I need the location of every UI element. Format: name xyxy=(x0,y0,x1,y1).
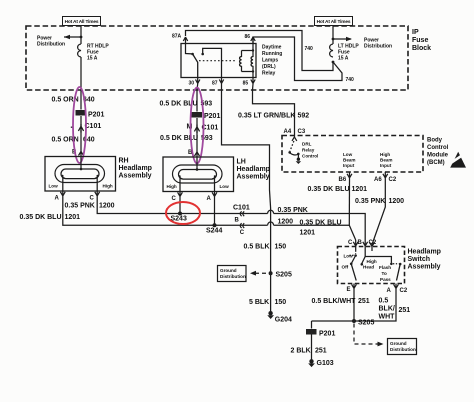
pin 87 arrow xyxy=(212,78,224,87)
pin A exit LH xyxy=(207,192,217,203)
switch: head/high contact from B xyxy=(361,257,393,266)
svg-text:Low: Low xyxy=(343,152,353,157)
svg-text:Distribution: Distribution xyxy=(37,42,65,48)
RH high filament leg xyxy=(95,175,98,191)
label: RH Headlamp Assembly xyxy=(119,158,152,180)
wire: 0.35 PNK 1200 from A6 to switch C2 xyxy=(372,179,385,245)
wire: dashed S205 to Ground Distribution (right) xyxy=(354,324,384,347)
RH headlamp assembly box xyxy=(45,157,116,192)
wire: arrow to Power Distribution (right) xyxy=(333,37,352,41)
svg-text:1200: 1200 xyxy=(278,219,294,226)
svg-text:1200: 1200 xyxy=(99,203,115,210)
svg-text:B6: B6 xyxy=(339,177,347,183)
svg-text:15 A: 15 A xyxy=(87,56,98,62)
relay coil xyxy=(240,44,253,78)
label: RT HDLP Fuse 15 A xyxy=(87,44,109,62)
svg-text:150: 150 xyxy=(275,299,287,306)
svg-text:Running: Running xyxy=(262,51,282,57)
RH low filament leg xyxy=(62,175,65,191)
svg-text:BLK/: BLK/ xyxy=(379,306,395,313)
ground G204 xyxy=(267,311,292,324)
svg-text:P201: P201 xyxy=(88,112,104,119)
svg-text:Headlamp: Headlamp xyxy=(408,249,441,256)
svg-text:Hot At All Times: Hot At All Times xyxy=(317,19,351,25)
svg-text:0.5 ORN: 0.5 ORN xyxy=(52,137,79,144)
svg-text:Off: Off xyxy=(342,265,349,270)
svg-text:Assembly: Assembly xyxy=(119,173,152,180)
wire: relay pin 87 to ground splice S205 xyxy=(222,84,271,313)
svg-text:C2: C2 xyxy=(389,177,397,183)
svg-text:High: High xyxy=(103,184,113,189)
svg-text:Input: Input xyxy=(380,163,392,168)
svg-text:251: 251 xyxy=(358,298,370,305)
svg-text:30: 30 xyxy=(189,81,195,87)
svg-text:P201: P201 xyxy=(204,113,220,120)
wire: feed from Hot box1 to RT HDLP fuse xyxy=(80,26,82,45)
label: Power Distribution (left) xyxy=(37,36,65,48)
label: 5 BLK 150 xyxy=(249,299,286,306)
svg-text:IP: IP xyxy=(412,29,419,36)
relay contact 87A (NC) xyxy=(186,44,193,54)
pin B entry LH headlamp xyxy=(188,150,200,157)
svg-text:0.35 DK BLU: 0.35 DK BLU xyxy=(20,214,62,221)
svg-text:Assembly: Assembly xyxy=(408,264,441,271)
svg-text:740: 740 xyxy=(305,46,314,52)
svg-text:Flash: Flash xyxy=(379,265,391,270)
pin B entry switch xyxy=(358,240,368,257)
annotation: red ellipse around S243 xyxy=(166,202,200,224)
connector C101 on buses xyxy=(233,204,250,236)
svg-text:High: High xyxy=(167,184,177,189)
svg-text:1201: 1201 xyxy=(352,186,368,193)
switch contacts: Low / Off and arm to E xyxy=(350,251,357,281)
headlamp switch assembly box xyxy=(338,247,405,284)
node: splice S205 (right) xyxy=(352,319,374,327)
svg-text:A: A xyxy=(387,288,392,294)
label: High Beam Input xyxy=(380,152,393,168)
label: 740 (inner) xyxy=(305,46,314,52)
svg-text:0.35 PNK: 0.35 PNK xyxy=(65,203,95,210)
svg-text:(DRL): (DRL) xyxy=(262,64,276,70)
pin A4/C3 entry to BCM xyxy=(284,129,306,141)
svg-text:Distribution: Distribution xyxy=(220,274,246,279)
label: 0.5 DK BLU 593 (upper) xyxy=(160,101,213,108)
svg-text:0.5 BLK: 0.5 BLK xyxy=(244,244,270,251)
IP Fuse Block box xyxy=(26,26,408,90)
Hot At All Times box 1 xyxy=(63,17,101,26)
label: 0.5 DK BLU 593 (lower) xyxy=(160,135,213,142)
svg-text:(BCM): (BCM) xyxy=(427,160,445,166)
pin A6/C2 exit from BCM xyxy=(374,172,397,183)
svg-text:Head: Head xyxy=(363,265,374,270)
LH low filament leg xyxy=(212,176,215,192)
svg-text:Ground: Ground xyxy=(220,268,237,273)
label: 0.5 BLK 150 xyxy=(244,244,287,251)
svg-text:To: To xyxy=(382,271,387,276)
wire: E to S205, 0.5 BLK/WHT 251 xyxy=(353,292,355,321)
fuse LT HDLP 15A xyxy=(330,44,333,57)
wire: dashed arrow S205 to Ground Distribution (left) xyxy=(250,271,266,276)
svg-text:C2: C2 xyxy=(400,288,408,294)
wire 740: LT fuse to relay pin 86 xyxy=(253,37,342,81)
wire: A/C2 down and left to S205 xyxy=(312,292,397,321)
label: 0.5 ORN 640 (lower) xyxy=(52,137,95,144)
svg-text:Daytime: Daytime xyxy=(262,45,282,51)
relay contact 87 (NO) branch xyxy=(203,48,222,77)
relay switch arm from pin 30 xyxy=(193,54,198,78)
svg-text:Low: Low xyxy=(344,254,354,259)
svg-text:Body: Body xyxy=(427,138,443,144)
ground G103 xyxy=(308,359,334,367)
LH bulb envelope xyxy=(173,165,223,183)
svg-text:251: 251 xyxy=(315,348,327,355)
LH high filament leg xyxy=(179,176,182,192)
label: High / Head xyxy=(363,259,377,270)
node: junction at RT fuse tap xyxy=(80,36,83,39)
wire: joined low-beam to switch C xyxy=(349,225,355,240)
label: Low Beam Input xyxy=(343,152,356,168)
node: LT fuse bottom junction xyxy=(332,61,335,64)
svg-text:C: C xyxy=(172,196,177,202)
connector P201 on ground wire xyxy=(306,329,335,338)
svg-text:Pass: Pass xyxy=(380,277,391,282)
node: splice S244 xyxy=(206,200,222,235)
label: Body Control Module (BCM) xyxy=(427,138,449,167)
box: Ground Distribution (right) xyxy=(388,339,417,355)
wire: high-beam bus (PNK 1200): RH C to switch B xyxy=(97,199,365,240)
svg-text:150: 150 xyxy=(275,244,287,251)
fuse RT HDLP 15A xyxy=(78,44,81,57)
svg-text:Block: Block xyxy=(412,45,431,52)
svg-text:C: C xyxy=(90,196,95,202)
connector P201 on RH feed xyxy=(76,110,105,119)
svg-text:5 BLK: 5 BLK xyxy=(249,299,269,306)
svg-text:M: M xyxy=(187,124,193,131)
svg-text:0.35 PNK: 0.35 PNK xyxy=(355,198,385,205)
svg-text:S205: S205 xyxy=(358,320,374,327)
svg-text:C3: C3 xyxy=(298,129,306,135)
node: splice S205 (left) xyxy=(269,271,273,275)
svg-text:B: B xyxy=(235,217,240,223)
connector C101 on RH feed xyxy=(71,123,102,133)
svg-text:S244: S244 xyxy=(206,228,222,235)
label: 2 BLK 251 xyxy=(291,348,327,355)
svg-text:1201: 1201 xyxy=(65,214,81,221)
pin 87A arrow xyxy=(172,34,188,44)
wire: low-beam bus (DK BLU 1201): RH A to junction xyxy=(63,199,350,225)
svg-text:85: 85 xyxy=(243,81,249,87)
svg-text:0.5 BLK/WHT: 0.5 BLK/WHT xyxy=(312,298,357,305)
svg-text:Low: Low xyxy=(49,184,59,189)
svg-text:B: B xyxy=(358,240,363,246)
svg-text:Beam: Beam xyxy=(380,158,393,163)
dotted actuating link xyxy=(199,60,236,62)
annotation: purple ellipse LH xyxy=(191,88,204,164)
svg-text:LH: LH xyxy=(237,159,246,166)
pin A/C2 exit switch xyxy=(387,284,408,295)
svg-text:0.35 DK BLU: 0.35 DK BLU xyxy=(300,220,342,227)
svg-text:C: C xyxy=(348,240,353,246)
svg-text:Relay: Relay xyxy=(302,148,315,153)
svg-text:E: E xyxy=(347,287,351,293)
svg-text:A6: A6 xyxy=(374,177,382,183)
label: High / Low (LH) xyxy=(167,184,230,189)
svg-text:G204: G204 xyxy=(275,317,292,324)
svg-text:Distribution: Distribution xyxy=(390,347,416,352)
svg-text:Headlamp: Headlamp xyxy=(119,165,152,172)
svg-text:C: C xyxy=(240,230,245,236)
svg-text:Relay: Relay xyxy=(262,71,276,77)
svg-text:Beam: Beam xyxy=(343,158,356,163)
connector P201 on LH feed xyxy=(192,112,221,120)
label: LT HDLP Fuse 15 A xyxy=(338,44,359,62)
svg-text:Assembly: Assembly xyxy=(237,174,270,181)
pin C2 entry switch xyxy=(369,240,377,251)
svg-text:Module: Module xyxy=(427,153,449,159)
label: 0.35 LT GRN/BLK 592 xyxy=(238,113,309,120)
svg-text:740: 740 xyxy=(346,77,355,83)
svg-text:A: A xyxy=(207,196,212,202)
svg-text:C101: C101 xyxy=(233,204,250,211)
svg-text:1201: 1201 xyxy=(300,230,316,237)
label: LH Headlamp Assembly xyxy=(237,159,270,181)
wire: LH feed into bulb xyxy=(196,157,199,171)
pin B6 exit from BCM xyxy=(339,172,352,183)
label: 0.35 DK BLU / 1201 right of hop bus2 xyxy=(300,220,342,237)
label: 0.5 ORN 640 (upper) xyxy=(52,97,95,104)
label: 740 (outer) xyxy=(346,77,355,83)
label: Low / Off xyxy=(342,254,354,270)
svg-text:15 A: 15 A xyxy=(338,56,349,62)
svg-text:WHT: WHT xyxy=(379,314,396,321)
svg-text:Ground: Ground xyxy=(390,341,407,346)
svg-text:0.35 PNK: 0.35 PNK xyxy=(278,207,308,214)
svg-text:87A: 87A xyxy=(172,34,182,40)
icon: BCM hazard triangle xyxy=(449,152,467,168)
LH headlamp assembly box xyxy=(163,157,234,192)
svg-text:Low: Low xyxy=(220,184,230,189)
svg-text:S205: S205 xyxy=(276,272,292,279)
svg-text:0.5 DK BLU: 0.5 DK BLU xyxy=(160,135,198,142)
svg-text:Distribution: Distribution xyxy=(364,44,392,50)
svg-text:251: 251 xyxy=(399,307,411,314)
label: Daytime Running Lamps (DRL) Relay xyxy=(262,45,282,77)
wire: relay pin 85 to BCM A4/C3, 0.35 LT GRN/BLK 592 xyxy=(253,84,295,129)
pin E exit switch xyxy=(347,284,357,293)
svg-text:87: 87 xyxy=(212,81,218,87)
svg-text:C2: C2 xyxy=(369,240,377,246)
svg-text:Hot At All Times: Hot At All Times xyxy=(65,19,99,25)
node: junction at LT fuse tap xyxy=(332,38,335,41)
svg-text:A: A xyxy=(55,196,60,202)
svg-text:DRL: DRL xyxy=(302,142,312,147)
label: 0.35 PNK / 1200 right of hop bus1 xyxy=(278,207,308,226)
svg-text:RH: RH xyxy=(119,158,129,165)
wire: RH feed into bulb xyxy=(80,157,83,171)
svg-text:0.35 DK BLU: 0.35 DK BLU xyxy=(308,186,350,193)
svg-text:Fuse: Fuse xyxy=(412,37,428,44)
label: Headlamp Switch Assembly xyxy=(408,249,441,271)
pin B entry RH headlamp xyxy=(72,150,84,157)
pin 85 arrow xyxy=(243,78,256,87)
pin 86 arrow xyxy=(245,34,256,44)
pin A exit RH xyxy=(55,191,66,202)
label: 0.35 DK BLU 1201 on RH pin A wire xyxy=(20,214,81,221)
pin C exit RH xyxy=(90,191,100,202)
relay K1 DRL box xyxy=(181,44,256,78)
svg-text:Control: Control xyxy=(427,145,449,151)
svg-text:0.5: 0.5 xyxy=(379,298,389,305)
symbol: DRL relay control driver inside BCM xyxy=(288,141,301,164)
label: Flash To Pass xyxy=(379,265,391,282)
svg-text:C101: C101 xyxy=(85,123,102,130)
box: Ground Distribution (left) xyxy=(218,266,247,282)
label: Low / High (RH) xyxy=(49,184,113,189)
pin 30 arrow xyxy=(189,78,200,87)
svg-text:High: High xyxy=(380,152,390,157)
svg-text:Lamps: Lamps xyxy=(262,58,278,64)
svg-text:A4: A4 xyxy=(284,129,292,135)
label: 0.35 PNK 1200 on RH pin C wire xyxy=(65,203,115,210)
wire: 0.35 DK BLU 1201 from B6 xyxy=(348,179,350,226)
pin C exit LH xyxy=(172,192,183,203)
label: Power Distribution (right) xyxy=(364,38,392,50)
pin C entry switch xyxy=(348,240,358,251)
wire: feed from Hot box2 to LT HDLP fuse xyxy=(332,26,334,45)
svg-text:0.35 LT GRN/BLK: 0.35 LT GRN/BLK xyxy=(238,113,295,120)
svg-text:2 BLK: 2 BLK xyxy=(291,348,311,355)
connector C101 on LH feed (pin M) xyxy=(187,124,219,133)
module BCM box xyxy=(282,136,423,173)
node: splice S243 xyxy=(171,200,187,223)
svg-text:High: High xyxy=(367,259,377,264)
switch: flash-to-pass contact and arm to A xyxy=(393,263,402,281)
svg-text:Control: Control xyxy=(302,154,318,159)
wire: RH headlamp feed 0.5 ORN 640 xyxy=(80,90,82,152)
wire: S205 left branch down to G103 xyxy=(311,321,313,361)
svg-text:Switch: Switch xyxy=(408,256,431,263)
IP Fuse Block label xyxy=(412,29,431,52)
svg-text:Input: Input xyxy=(343,163,355,168)
label: DRL Relay Control xyxy=(302,142,318,159)
wire 740: LT fuse to relay pin 87A xyxy=(186,31,334,71)
svg-text:Headlamp: Headlamp xyxy=(237,166,270,173)
annotation: purple ellipse RH xyxy=(73,87,86,163)
svg-text:1200: 1200 xyxy=(389,198,405,205)
svg-text:592: 592 xyxy=(298,113,310,120)
Hot At All Times box 2 xyxy=(315,17,353,26)
wire: arrow to Power Distribution (left) xyxy=(64,35,81,39)
svg-text:86: 86 xyxy=(245,34,251,40)
svg-text:P201: P201 xyxy=(319,331,335,338)
wire: RT fuse output down to box edge xyxy=(80,57,82,90)
RH bulb envelope xyxy=(55,165,105,183)
svg-text:G103: G103 xyxy=(317,360,334,367)
wire: LH headlamp feed 0.5 DK BLU 593 from relay pin 30 xyxy=(196,84,199,152)
